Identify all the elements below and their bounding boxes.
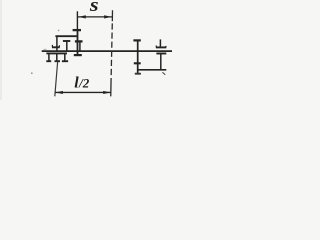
dimension l/2 left arrowhead — [55, 91, 63, 94]
faint speck near upper shaft — [58, 30, 60, 32]
pinion C top bar — [73, 29, 81, 31]
gear E stem (on main shaft) — [137, 40, 139, 74]
gear E top bar — [133, 39, 140, 41]
pinion C lower vertical line — [77, 30, 79, 56]
lower output shaft — [138, 69, 167, 71]
dimension s right arrowhead — [104, 15, 112, 18]
gear F upper bar hooks — [156, 46, 166, 48]
gear F upper stem — [159, 39, 161, 47]
gear A stem (on upper shaft) — [56, 36, 58, 51]
dimension l/2 right arrowhead — [103, 91, 111, 94]
pinion C vertical line (also s-dimension extension) — [76, 11, 78, 29]
gear A rim end hooks — [52, 45, 59, 47]
label s — [89, 0, 99, 16]
hub stem 3 — [64, 53, 66, 60]
hub stem 1 — [48, 53, 50, 60]
faint smudge near centerline start — [43, 48, 46, 50]
hub foot bar 2 — [55, 60, 61, 62]
gear E bottom bar — [135, 73, 141, 75]
dimension l/2 extension line left — [55, 62, 58, 97]
hub foot bar 3 — [62, 60, 68, 62]
upper input shaft — [55, 35, 77, 37]
hub stem 2 — [56, 53, 58, 60]
wheel D bottom bar — [74, 54, 82, 56]
wheel D stem — [79, 43, 81, 51]
dimension s left arrowhead — [78, 15, 86, 18]
dimension l/2 line — [55, 91, 111, 93]
gear A rim bar — [52, 46, 60, 48]
gear B stem — [66, 41, 68, 51]
stray scan speck left — [31, 72, 33, 74]
gear B rim bar — [63, 40, 70, 42]
gear F lower bar — [156, 53, 166, 55]
main shaft centerline — [42, 50, 172, 52]
paper background — [0, 0, 205, 100]
gear E mesh bar — [134, 62, 141, 64]
svg-text:/2: /2 — [78, 76, 90, 91]
svg-text:s: s — [89, 0, 99, 16]
gear F upper bar — [156, 46, 166, 48]
stray scan tick near lower shaft end — [162, 72, 165, 74]
gear F lower stem — [160, 54, 162, 70]
dimension s extension line right (dashed center plane) — [111, 10, 113, 96]
hub long bar below centerline — [46, 52, 67, 54]
hub foot bar 1 — [46, 60, 51, 62]
pinion C mesh bar — [75, 40, 83, 42]
dimension s line — [77, 16, 112, 18]
